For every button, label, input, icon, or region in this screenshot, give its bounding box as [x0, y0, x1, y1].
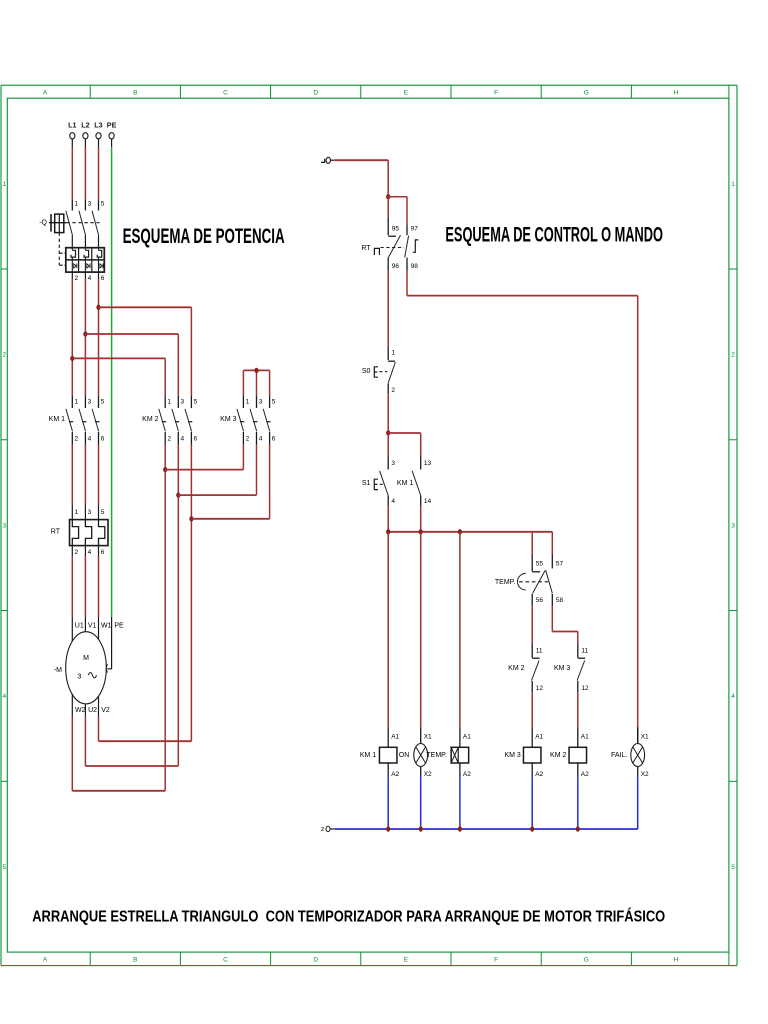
wire bus to ON lamp — [420, 532, 422, 728]
frame top column ruler — [43, 85, 729, 98]
wire KM2 12 to KM3 coil — [531, 692, 533, 727]
breaker Q1 pole 3 thermal + magnetic trip elements — [97, 248, 103, 272]
frame left row ruler — [1, 181, 7, 871]
svg-text:56: 56 — [536, 597, 544, 604]
node neutral bus at KM2 coil — [576, 826, 580, 831]
svg-text:1: 1 — [391, 350, 395, 357]
svg-text:A1: A1 — [391, 733, 399, 740]
contactor KM 2 pole 5-6 contact — [185, 395, 198, 444]
label ON for lamp — [399, 752, 410, 759]
svg-text:E: E — [404, 956, 409, 963]
svg-text:L1: L1 — [68, 121, 76, 130]
contactor KM3 aux NC contact 11-12 — [554, 643, 589, 692]
svg-text:A2: A2 — [391, 771, 399, 778]
lamp ON — [414, 727, 432, 778]
svg-text:5: 5 — [101, 509, 105, 516]
wire KM2 pole3 to KM3 pole3 — [191, 445, 269, 519]
svg-text:11: 11 — [581, 647, 588, 654]
svg-text:KM 1: KM 1 — [49, 416, 65, 423]
RT aux NO contact 97-98 — [405, 224, 419, 270]
svg-text:6: 6 — [101, 275, 105, 282]
svg-text:2: 2 — [167, 436, 171, 443]
node KM2 pole1 junction — [163, 467, 167, 472]
wire KM1 pole 2 to RT — [84, 445, 86, 506]
svg-text:3: 3 — [731, 522, 735, 529]
svg-text:13: 13 — [424, 460, 432, 467]
svg-text:2: 2 — [246, 436, 250, 443]
pushbutton S1 NO contact 3-4 — [380, 457, 396, 506]
breaker Q1 pole 1 lower terminal — [72, 272, 78, 282]
svg-text:58: 58 — [556, 597, 564, 604]
svg-text:4: 4 — [731, 693, 735, 700]
timer TEMP NC contact 55-56 — [532, 554, 545, 606]
svg-text:RT: RT — [361, 245, 371, 252]
svg-text:U1: U1 — [75, 623, 84, 630]
node neutral bus at ON lamp — [419, 826, 423, 831]
contactor KM 1 pole 3-4 contact — [79, 395, 92, 444]
svg-text:A: A — [43, 89, 48, 96]
svg-text:4: 4 — [181, 436, 185, 443]
wire L3 terminal to breaker -Q — [98, 147, 100, 199]
wire KM1 pole 3 to RT — [98, 445, 100, 506]
svg-text:1: 1 — [75, 509, 79, 516]
contactor KM 2 label — [142, 416, 158, 423]
svg-text:A1: A1 — [581, 733, 589, 740]
svg-text:X1: X1 — [641, 733, 649, 740]
svg-text:U2: U2 — [88, 707, 97, 714]
drawing frame inner border — [7, 98, 729, 952]
wire bus to KM1 coil — [387, 532, 389, 728]
svg-text:X1: X1 — [424, 733, 432, 740]
svg-text:1: 1 — [75, 201, 79, 208]
svg-text:4: 4 — [88, 549, 92, 556]
node KM2 pole2 junction — [176, 492, 180, 497]
frame bottom column ruler — [43, 952, 729, 966]
wire L2 terminal to breaker -Q — [84, 147, 86, 199]
svg-text:97: 97 — [411, 226, 419, 233]
breaker Q1 linkage dashed lines — [59, 223, 99, 266]
svg-text:KM 3: KM 3 — [220, 416, 236, 423]
svg-text:A2: A2 — [535, 771, 543, 778]
coil KM1 — [360, 727, 400, 778]
contactor KM 1 pole 1-2 contact — [66, 395, 79, 444]
timer TEMP linkage dashed line — [519, 581, 548, 583]
svg-text:5: 5 — [101, 201, 105, 208]
wire feed to RT 97 — [388, 197, 407, 225]
wire KM3 star-point bus — [243, 370, 269, 395]
thermal relay RT pole 2 heater element — [85, 505, 91, 556]
wire S0 to S1/KM1 branch — [387, 394, 389, 433]
node seal bus at KM1 14 — [419, 529, 423, 534]
contactor KM 1 label — [49, 416, 65, 423]
svg-text:A1: A1 — [463, 733, 471, 740]
svg-text:B: B — [133, 89, 137, 96]
wire seal bus — [388, 531, 552, 533]
breaker Q1 trip unit box — [66, 248, 105, 272]
svg-text:95: 95 — [392, 226, 400, 233]
breaker Q1 pole 1 contact — [66, 199, 79, 248]
svg-text:A1: A1 — [535, 733, 543, 740]
svg-text:2: 2 — [75, 549, 79, 556]
svg-text:4: 4 — [391, 498, 395, 505]
thermal relay RT pole 3 heater element — [99, 505, 105, 556]
svg-text:ON: ON — [399, 752, 410, 759]
wire motor U2 to KM2/KM3 junction — [85, 445, 178, 767]
coil TEMP timer X marking — [451, 747, 458, 763]
wire motor V2 to KM2/KM3 junction — [99, 445, 192, 742]
svg-text:ESQUEMA DE POTENCIA: ESQUEMA DE POTENCIA — [123, 224, 285, 248]
contactor KM 3 label — [220, 416, 236, 423]
wire motor V2 stub — [98, 696, 100, 716]
wire FAIL lamp to neutral bus — [637, 777, 639, 829]
svg-text:S0: S0 — [362, 368, 371, 375]
wire S1 to seal bus — [387, 506, 389, 532]
node seal bus at S1 — [386, 529, 390, 534]
RT aux NC contact 95-96 — [388, 218, 400, 271]
svg-text:PE: PE — [107, 121, 117, 130]
control return terminal z — [321, 826, 335, 833]
wire L1 breaker to KM1 — [71, 279, 73, 395]
pushbutton S0 label and actuator — [362, 367, 387, 377]
svg-text:5: 5 — [731, 864, 735, 871]
svg-text:V2: V2 — [101, 707, 110, 714]
wire KM3 12 to KM2 coil — [577, 692, 579, 727]
wire KM1 pole 1 to RT — [71, 445, 73, 506]
svg-text:z: z — [321, 826, 324, 833]
contactor KM 3 pole 5-6 contact — [263, 395, 276, 444]
wire bus to TEMP contact 57 — [551, 532, 553, 554]
wire L1 terminal to breaker -Q — [71, 147, 73, 199]
svg-text:3: 3 — [259, 398, 263, 405]
wire PE to motor frame — [106, 617, 111, 673]
svg-text:H: H — [674, 89, 679, 96]
node S1 branch split — [386, 430, 390, 435]
wire L3 breaker to KM1 — [98, 279, 100, 395]
svg-text:5: 5 — [272, 398, 276, 405]
svg-text:57: 57 — [556, 560, 564, 567]
breaker Q1 pole 1 thermal + magnetic trip elements — [71, 248, 77, 272]
contactor KM1 aux NO contact 13-14 — [397, 457, 432, 506]
control supply terminal — [321, 157, 334, 163]
breaker Q1 pole 2 thermal + magnetic trip elements — [84, 248, 90, 272]
node neutral bus at KM3 coil — [530, 826, 534, 831]
motor terminal labels W2 U2 V2 — [75, 707, 110, 714]
frame right row ruler — [729, 181, 737, 871]
svg-text:C: C — [223, 89, 228, 96]
wire bottom neutral bus — [335, 828, 638, 830]
wire TEMP 56 to KM2 aux 11 — [531, 606, 533, 643]
svg-text:2: 2 — [75, 275, 79, 282]
circuit breaker Q1 operator — [39, 214, 66, 233]
thermal relay RT box — [70, 520, 109, 546]
supply terminal L1 — [68, 121, 76, 147]
lamp FAIL — [611, 727, 649, 778]
svg-text:KM 3: KM 3 — [504, 752, 520, 759]
svg-text:6: 6 — [194, 436, 198, 443]
coil KM2 — [550, 727, 589, 778]
svg-text:L2: L2 — [81, 121, 89, 130]
wire branch to KM1 13 — [388, 433, 421, 457]
timer TEMP label and delay symbol — [495, 573, 526, 590]
svg-text:98: 98 — [411, 263, 419, 270]
svg-text:3: 3 — [181, 398, 185, 405]
svg-text:14: 14 — [424, 498, 432, 505]
motor terminal labels U1 V1 W1 PE — [75, 623, 124, 630]
svg-text:12: 12 — [581, 685, 589, 692]
svg-text:3: 3 — [2, 522, 6, 529]
svg-text:6: 6 — [101, 436, 105, 443]
wire bus to TEMP coil — [459, 532, 461, 728]
svg-text:L3: L3 — [94, 121, 102, 130]
svg-text:KM 1: KM 1 — [360, 752, 376, 759]
node seal bus at TEMP lamp branch — [458, 529, 462, 534]
wire bus to TEMP contact 55 — [531, 532, 533, 554]
wire KM1 14 to seal bus — [420, 506, 422, 532]
coil KM3 — [504, 727, 543, 778]
thermal relay RT aux label and trip symbol — [361, 245, 379, 255]
wire TEMP coil to neutral bus — [459, 777, 461, 829]
contactor KM2 aux NC contact 11-12 — [508, 643, 543, 693]
coil TEMP — [426, 727, 471, 778]
svg-text:2: 2 — [2, 352, 6, 359]
wire RT 98 to FAIL lamp — [407, 271, 638, 733]
svg-text:E: E — [404, 89, 409, 96]
wire RT to motor W1 — [98, 556, 100, 640]
svg-text:X2: X2 — [641, 771, 649, 778]
wire TEMP 58 to KM3 aux 11 — [552, 606, 578, 643]
svg-text:2: 2 — [75, 436, 79, 443]
node KM2 pole3 junction — [189, 516, 193, 521]
svg-text:KM 3: KM 3 — [554, 665, 570, 672]
wire tap L1 to KM2 pole 1 — [72, 358, 165, 395]
svg-text:6: 6 — [101, 549, 105, 556]
node control feed split — [386, 194, 390, 199]
svg-text:KM 2: KM 2 — [142, 416, 158, 423]
wire RT 96 to S0 — [387, 271, 389, 347]
RT aux linkage dashed line — [381, 247, 405, 249]
svg-text:3: 3 — [88, 201, 92, 208]
svg-text:3: 3 — [77, 673, 81, 680]
breaker Q1 pole 3 lower terminal — [99, 272, 105, 282]
svg-text:ESQUEMA DE CONTROL O MANDO: ESQUEMA DE CONTROL O MANDO — [445, 223, 663, 247]
supply terminal PE — [107, 121, 117, 147]
svg-text:TEMP.: TEMP. — [495, 579, 516, 586]
svg-text:1: 1 — [2, 181, 6, 188]
thermal relay RT label — [51, 529, 61, 536]
breaker Q1 pole 2 lower terminal — [85, 272, 91, 282]
svg-text:V1: V1 — [88, 623, 97, 630]
svg-text:1: 1 — [246, 398, 250, 405]
wire FAIL lamp feed stub — [637, 733, 639, 744]
supply terminal L2 — [81, 121, 89, 147]
contactor KM 1 pole 5-6 contact — [92, 395, 105, 444]
svg-text:55: 55 — [536, 560, 544, 567]
svg-text:F: F — [494, 956, 498, 963]
svg-text:-M: -M — [54, 667, 62, 674]
wire KM3 coil to neutral bus — [531, 777, 533, 829]
svg-text:2: 2 — [731, 352, 735, 359]
svg-text:A2: A2 — [463, 771, 471, 778]
svg-text:1: 1 — [167, 398, 171, 405]
title ESQUEMA DE POTENCIA — [123, 224, 285, 248]
wire KM2 coil to neutral bus — [577, 777, 579, 829]
svg-text:D: D — [313, 89, 318, 96]
wire feed to RT 95 — [387, 197, 389, 218]
svg-text:1: 1 — [75, 398, 79, 405]
svg-text:11: 11 — [536, 647, 543, 654]
svg-text:D: D — [313, 956, 318, 963]
bottom title ARRANQUE ESTRELLA TRIANGULO — [32, 907, 665, 926]
wire KM2 pole1 to KM3 pole1 — [165, 445, 243, 470]
node tap L2 to KM2 — [83, 331, 87, 336]
pushbutton S1 label and actuator — [362, 479, 385, 489]
thermal relay RT pole 1 heater element — [72, 505, 78, 556]
svg-text:12: 12 — [536, 685, 544, 692]
contactor KM 2 pole 3-4 contact — [172, 395, 185, 444]
svg-text:3: 3 — [88, 398, 92, 405]
svg-text:4: 4 — [88, 436, 92, 443]
svg-text:TEMP.: TEMP. — [426, 752, 447, 759]
timer TEMP NO contact 57-58 — [546, 554, 564, 606]
wire S0 to S1 — [387, 433, 389, 457]
RT aux delayed-action hook symbol — [413, 240, 419, 252]
svg-text:3: 3 — [391, 460, 395, 467]
svg-text:4: 4 — [88, 275, 92, 282]
svg-text:W2: W2 — [75, 707, 86, 714]
wire KM2 pole2 to KM3 pole2 — [178, 445, 256, 496]
contactor KM 2 pole 1-2 contact — [159, 395, 172, 444]
breaker Q1 pole 3 contact — [92, 199, 105, 248]
contactor KM 3 pole 3-4 contact — [250, 395, 263, 444]
wire motor U2 stub — [84, 704, 86, 717]
wire RT to motor U1 — [71, 556, 73, 641]
wire PE vertical run — [111, 147, 113, 617]
svg-text:-Q: -Q — [39, 219, 47, 226]
node neutral bus at KM1 coil — [386, 826, 390, 831]
wire control feed to RT — [334, 160, 388, 197]
svg-text:ARRANQUE ESTRELLA TRIANGULO C: ARRANQUE ESTRELLA TRIANGULO CON TEMPORIZ… — [32, 907, 665, 926]
svg-text:3: 3 — [88, 509, 92, 516]
svg-text:H: H — [674, 956, 679, 963]
node KM3 star bus junction — [254, 368, 258, 373]
svg-text:F: F — [494, 89, 498, 96]
svg-text:5: 5 — [194, 398, 198, 405]
svg-text:2: 2 — [391, 387, 395, 394]
svg-text:RT: RT — [51, 529, 61, 536]
svg-text:96: 96 — [392, 263, 400, 270]
svg-text:W1: W1 — [101, 623, 112, 630]
contactor KM 3 pole 1-2 contact — [237, 395, 250, 444]
svg-text:B: B — [133, 956, 137, 963]
svg-text:PE: PE — [114, 623, 124, 630]
breaker Q1 pole 2 contact — [79, 199, 92, 248]
svg-text:4: 4 — [2, 693, 6, 700]
wire L2 breaker to KM1 — [84, 279, 86, 395]
pushbutton S0 NC contact 1-2 — [388, 346, 395, 394]
wire tap L3 to KM2 pole 5 — [99, 307, 192, 395]
svg-text:X2: X2 — [424, 771, 432, 778]
node tap L3 to KM2 — [96, 305, 100, 310]
supply terminal L3 — [94, 121, 102, 147]
svg-text:KM 2: KM 2 — [508, 665, 524, 672]
node neutral bus at TEMP coil — [458, 826, 462, 831]
svg-text:FAIL.: FAIL. — [611, 752, 627, 759]
svg-text:M: M — [83, 655, 89, 662]
svg-text:KM 2: KM 2 — [550, 752, 566, 759]
svg-text:1: 1 — [731, 181, 735, 188]
svg-text:C: C — [223, 956, 228, 963]
svg-text:G: G — [584, 89, 589, 96]
svg-text:A2: A2 — [581, 771, 589, 778]
svg-text:KM 1: KM 1 — [397, 480, 413, 487]
svg-text:5: 5 — [2, 864, 6, 871]
wire motor W2 stub — [71, 695, 73, 717]
svg-text:A: A — [43, 956, 48, 963]
svg-text:6: 6 — [272, 436, 276, 443]
svg-text:S1: S1 — [362, 480, 371, 487]
svg-text:5: 5 — [101, 398, 105, 405]
wire KM1 coil to neutral bus — [387, 777, 389, 829]
motor M1 3-phase — [54, 632, 106, 704]
svg-text:G: G — [584, 956, 589, 963]
node tap L1 to KM2 — [70, 356, 74, 361]
svg-text:4: 4 — [259, 436, 263, 443]
wire tap L2 to KM2 pole 3 — [85, 334, 178, 395]
wire motor W2 to KM2/KM3 junction — [72, 445, 165, 791]
title ESQUEMA DE CONTROL O MANDO — [445, 223, 663, 247]
wire RT to motor V1 — [84, 556, 86, 633]
wire ON lamp to neutral bus — [420, 777, 422, 829]
